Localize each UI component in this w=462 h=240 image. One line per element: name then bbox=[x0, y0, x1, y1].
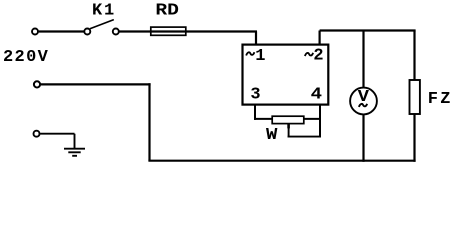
potentiometer W body bbox=[272, 116, 304, 123]
wire voltmeter down to bottom rail bbox=[362, 114, 364, 162]
voltmeter AC tilde bbox=[359, 104, 367, 107]
wire potentiometer right to pin 4 drop bbox=[304, 118, 321, 120]
svg-text:W: W bbox=[266, 126, 278, 145]
wire switch to fuse and on to node above ~1 bbox=[119, 30, 257, 32]
wire terminal L to switch bbox=[39, 30, 85, 32]
wire rectifier pin 3 down bbox=[254, 105, 256, 120]
wire right rail down to FZ bbox=[413, 31, 415, 81]
switch K1 left contact bbox=[84, 29, 90, 35]
wire FZ down to bottom rail bbox=[413, 114, 415, 162]
terminal N (bottom supply terminal) bbox=[34, 81, 40, 87]
ground symbol bbox=[64, 149, 85, 156]
load FZ body bbox=[410, 80, 420, 114]
potentiometer wiper arrow bbox=[287, 124, 290, 129]
voltmeter V1 body bbox=[350, 88, 377, 115]
terminal L (top supply terminal) bbox=[32, 29, 38, 35]
svg-text:1: 1 bbox=[255, 47, 265, 66]
fuse RD body bbox=[151, 27, 186, 35]
bottom rail wire bbox=[148, 160, 415, 162]
svg-text:K1: K1 bbox=[92, 1, 116, 20]
wire pin 3 to potentiometer left bbox=[254, 118, 273, 120]
wire rectifier pin 4 down bbox=[319, 105, 321, 138]
wire wiper loop bottom bbox=[288, 136, 321, 138]
svg-text:3: 3 bbox=[250, 86, 260, 105]
rectifier box U1 bbox=[243, 45, 329, 105]
svg-text:RD: RD bbox=[155, 1, 179, 20]
wire left return vertical bbox=[148, 83, 150, 160]
wire rectifier terminal ~2 up bbox=[319, 31, 321, 45]
wire ground drop bbox=[74, 134, 76, 149]
wire earth terminal to ground bbox=[40, 133, 74, 135]
pin label ~1 bbox=[246, 52, 254, 55]
terminal E (earth terminal) bbox=[34, 131, 40, 137]
pin label ~2 bbox=[305, 53, 313, 56]
wire top right rail bbox=[320, 29, 416, 31]
switch K1 blade bbox=[90, 20, 114, 29]
svg-text:220V: 220V bbox=[3, 48, 49, 67]
svg-text:4: 4 bbox=[311, 86, 322, 105]
switch K1 right contact bbox=[113, 29, 119, 35]
wire wiper down bbox=[288, 128, 290, 138]
wire down to voltmeter bbox=[362, 31, 364, 89]
wire down into rectifier terminal ~1 bbox=[255, 32, 257, 46]
wire terminal N to return vertical bbox=[41, 83, 151, 85]
svg-text:2: 2 bbox=[313, 47, 323, 66]
svg-text:FZ: FZ bbox=[428, 90, 453, 109]
